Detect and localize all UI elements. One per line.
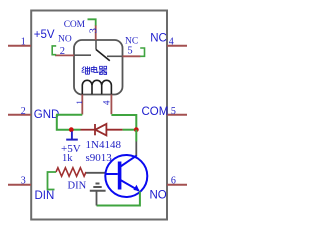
relay pin 2 stub (left) xyxy=(55,54,74,56)
svg-text:NC: NC xyxy=(150,33,167,45)
svg-text:1: 1 xyxy=(21,37,26,48)
relay switch common pivot xyxy=(95,40,97,50)
module body outline U1 xyxy=(31,11,167,220)
relay pin 5 stub (right) xyxy=(123,55,141,57)
wire coil pin 4 to junction column xyxy=(111,115,136,130)
电 xyxy=(91,66,98,73)
relay coil pin 1 stub xyxy=(81,95,83,115)
svg-text:5: 5 xyxy=(171,106,176,117)
transistor base bar xyxy=(118,162,122,190)
pin 5 COM stub xyxy=(167,114,187,116)
svg-text:2: 2 xyxy=(60,46,65,57)
svg-text:s9013: s9013 xyxy=(86,152,113,164)
svg-text:NO: NO xyxy=(150,189,167,201)
relay pin 2 wire hook xyxy=(52,46,56,55)
继 xyxy=(82,66,85,72)
wire emitter down and across to ground xyxy=(97,192,140,206)
svg-text:DIN: DIN xyxy=(68,180,87,191)
wire corner down to diode row xyxy=(57,115,72,130)
relay coil xyxy=(82,80,111,94)
resistor R1 1k xyxy=(56,168,86,177)
relay coil pin 4 stub xyxy=(110,95,112,115)
pin 1 +5V stub xyxy=(8,45,31,47)
svg-text:5: 5 xyxy=(127,46,132,57)
ground symbol xyxy=(90,184,106,191)
svg-text:3: 3 xyxy=(21,175,26,186)
relay pin 3 stub (top) xyxy=(95,25,97,40)
relay K1 body xyxy=(74,40,123,95)
relay NO contact line xyxy=(74,54,91,56)
svg-text:2: 2 xyxy=(21,106,26,117)
wire diode left lead green part xyxy=(72,129,81,131)
svg-text:COM: COM xyxy=(64,20,86,30)
relay switch armature xyxy=(96,50,110,61)
svg-text:1N4148: 1N4148 xyxy=(86,139,122,151)
emitter slant xyxy=(121,180,139,191)
svg-text:6: 6 xyxy=(171,175,176,186)
pin 2 GND stub xyxy=(8,114,31,116)
svg-text:NO: NO xyxy=(58,35,72,45)
junction dot right xyxy=(134,127,139,132)
svg-text:4: 4 xyxy=(169,37,174,48)
relay pin 5 wire hook xyxy=(140,48,144,56)
transistor emitter arrow xyxy=(133,185,139,192)
svg-text:3: 3 xyxy=(89,28,100,33)
transistor collector pin lead xyxy=(135,142,137,157)
pin 6 NO stub xyxy=(167,184,187,186)
wire GND row to coil pin 1 xyxy=(56,114,82,116)
svg-text:NC: NC xyxy=(125,37,138,47)
relay NC contact line xyxy=(107,55,123,57)
svg-text:+5V: +5V xyxy=(34,29,55,41)
diode D1 1N4148 xyxy=(81,124,123,135)
pin 3 DIN stub xyxy=(8,184,31,186)
resistor right lead to base xyxy=(86,172,106,174)
collector slant xyxy=(121,156,137,167)
pin 4 NC stub xyxy=(167,45,187,47)
junction dot left xyxy=(69,127,74,132)
wire junction down to collector xyxy=(135,130,137,142)
wire resistor left hook DIN xyxy=(48,172,57,190)
relay pin 3 wire hook xyxy=(88,19,96,25)
svg-text:GND: GND xyxy=(34,109,60,121)
relay label 继电器 (drawn strokes) xyxy=(82,66,107,75)
power flag +5V xyxy=(66,132,78,140)
ground stem xyxy=(96,192,98,206)
器 xyxy=(99,66,107,74)
svg-text:1k: 1k xyxy=(62,153,73,164)
transistor Q1 s9013 xyxy=(105,155,147,197)
wire diode right lead green to junction xyxy=(123,129,137,131)
svg-text:COM: COM xyxy=(142,106,169,118)
svg-text:DIN: DIN xyxy=(35,190,55,202)
svg-text:4: 4 xyxy=(102,100,112,105)
base lead xyxy=(106,173,118,175)
svg-text:1: 1 xyxy=(74,100,84,104)
